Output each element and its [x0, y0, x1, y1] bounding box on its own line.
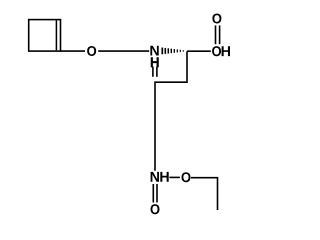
chain: C* down, left, down to lower N — [155, 51, 187, 171]
atom label lower ether O — [181, 172, 190, 182]
carboxyl C=O double bond line b — [219, 25, 221, 44]
bond ether O2 to ethyl CH2 then down to CH3 — [191, 178, 218, 210]
double bond N=C line a (below H) — [152, 67, 154, 77]
atom label carboxyl H of OH — [222, 46, 230, 56]
cyclobutene ring double bond inner line — [55, 20, 57, 50]
hashed wedge dash 7 of stereo bond N to C* — [180, 50, 181, 52]
bond ring C to ether O — [61, 50, 86, 52]
atom label carbonyl O (top right) — [212, 13, 221, 23]
hashed wedge dash 3 of stereo bond N to C* — [168, 48, 170, 53]
carboxyl C=O double bond line a — [215, 25, 217, 44]
bond ether O to N — [98, 50, 149, 52]
atom label H on top N — [151, 57, 159, 67]
double bond N=C line b (below H) — [156, 67, 158, 77]
atom label H on lower N — [160, 172, 168, 182]
hashed wedge dash 6 of stereo bond N to C* — [177, 49, 178, 52]
hashed wedge dash 1 of stereo bond N to C* — [161, 48, 163, 55]
hashed wedge dash 2 of stereo bond N to C* — [165, 48, 167, 54]
atom label carboxyl O of OH — [212, 46, 221, 56]
atom label lower N — [151, 172, 159, 182]
atom label ether O (top left) — [87, 46, 96, 56]
lower N=O double bond line b — [156, 184, 158, 203]
hashed wedge dash 8 of stereo bond N to C* — [183, 50, 184, 52]
lower N=O double bond line a — [152, 184, 154, 203]
hashed wedge dash 5 of stereo bond N to C* — [174, 49, 175, 53]
atom label N (top) — [150, 46, 158, 56]
bond C* to carboxyl OH — [187, 50, 211, 52]
cyclobutene ring (square) — [29, 20, 61, 51]
hashed wedge dash 4 of stereo bond N to C* — [171, 49, 172, 54]
atom label lower carbonyl O — [150, 204, 159, 214]
bond lower N-H to ether O2 — [169, 176, 180, 178]
